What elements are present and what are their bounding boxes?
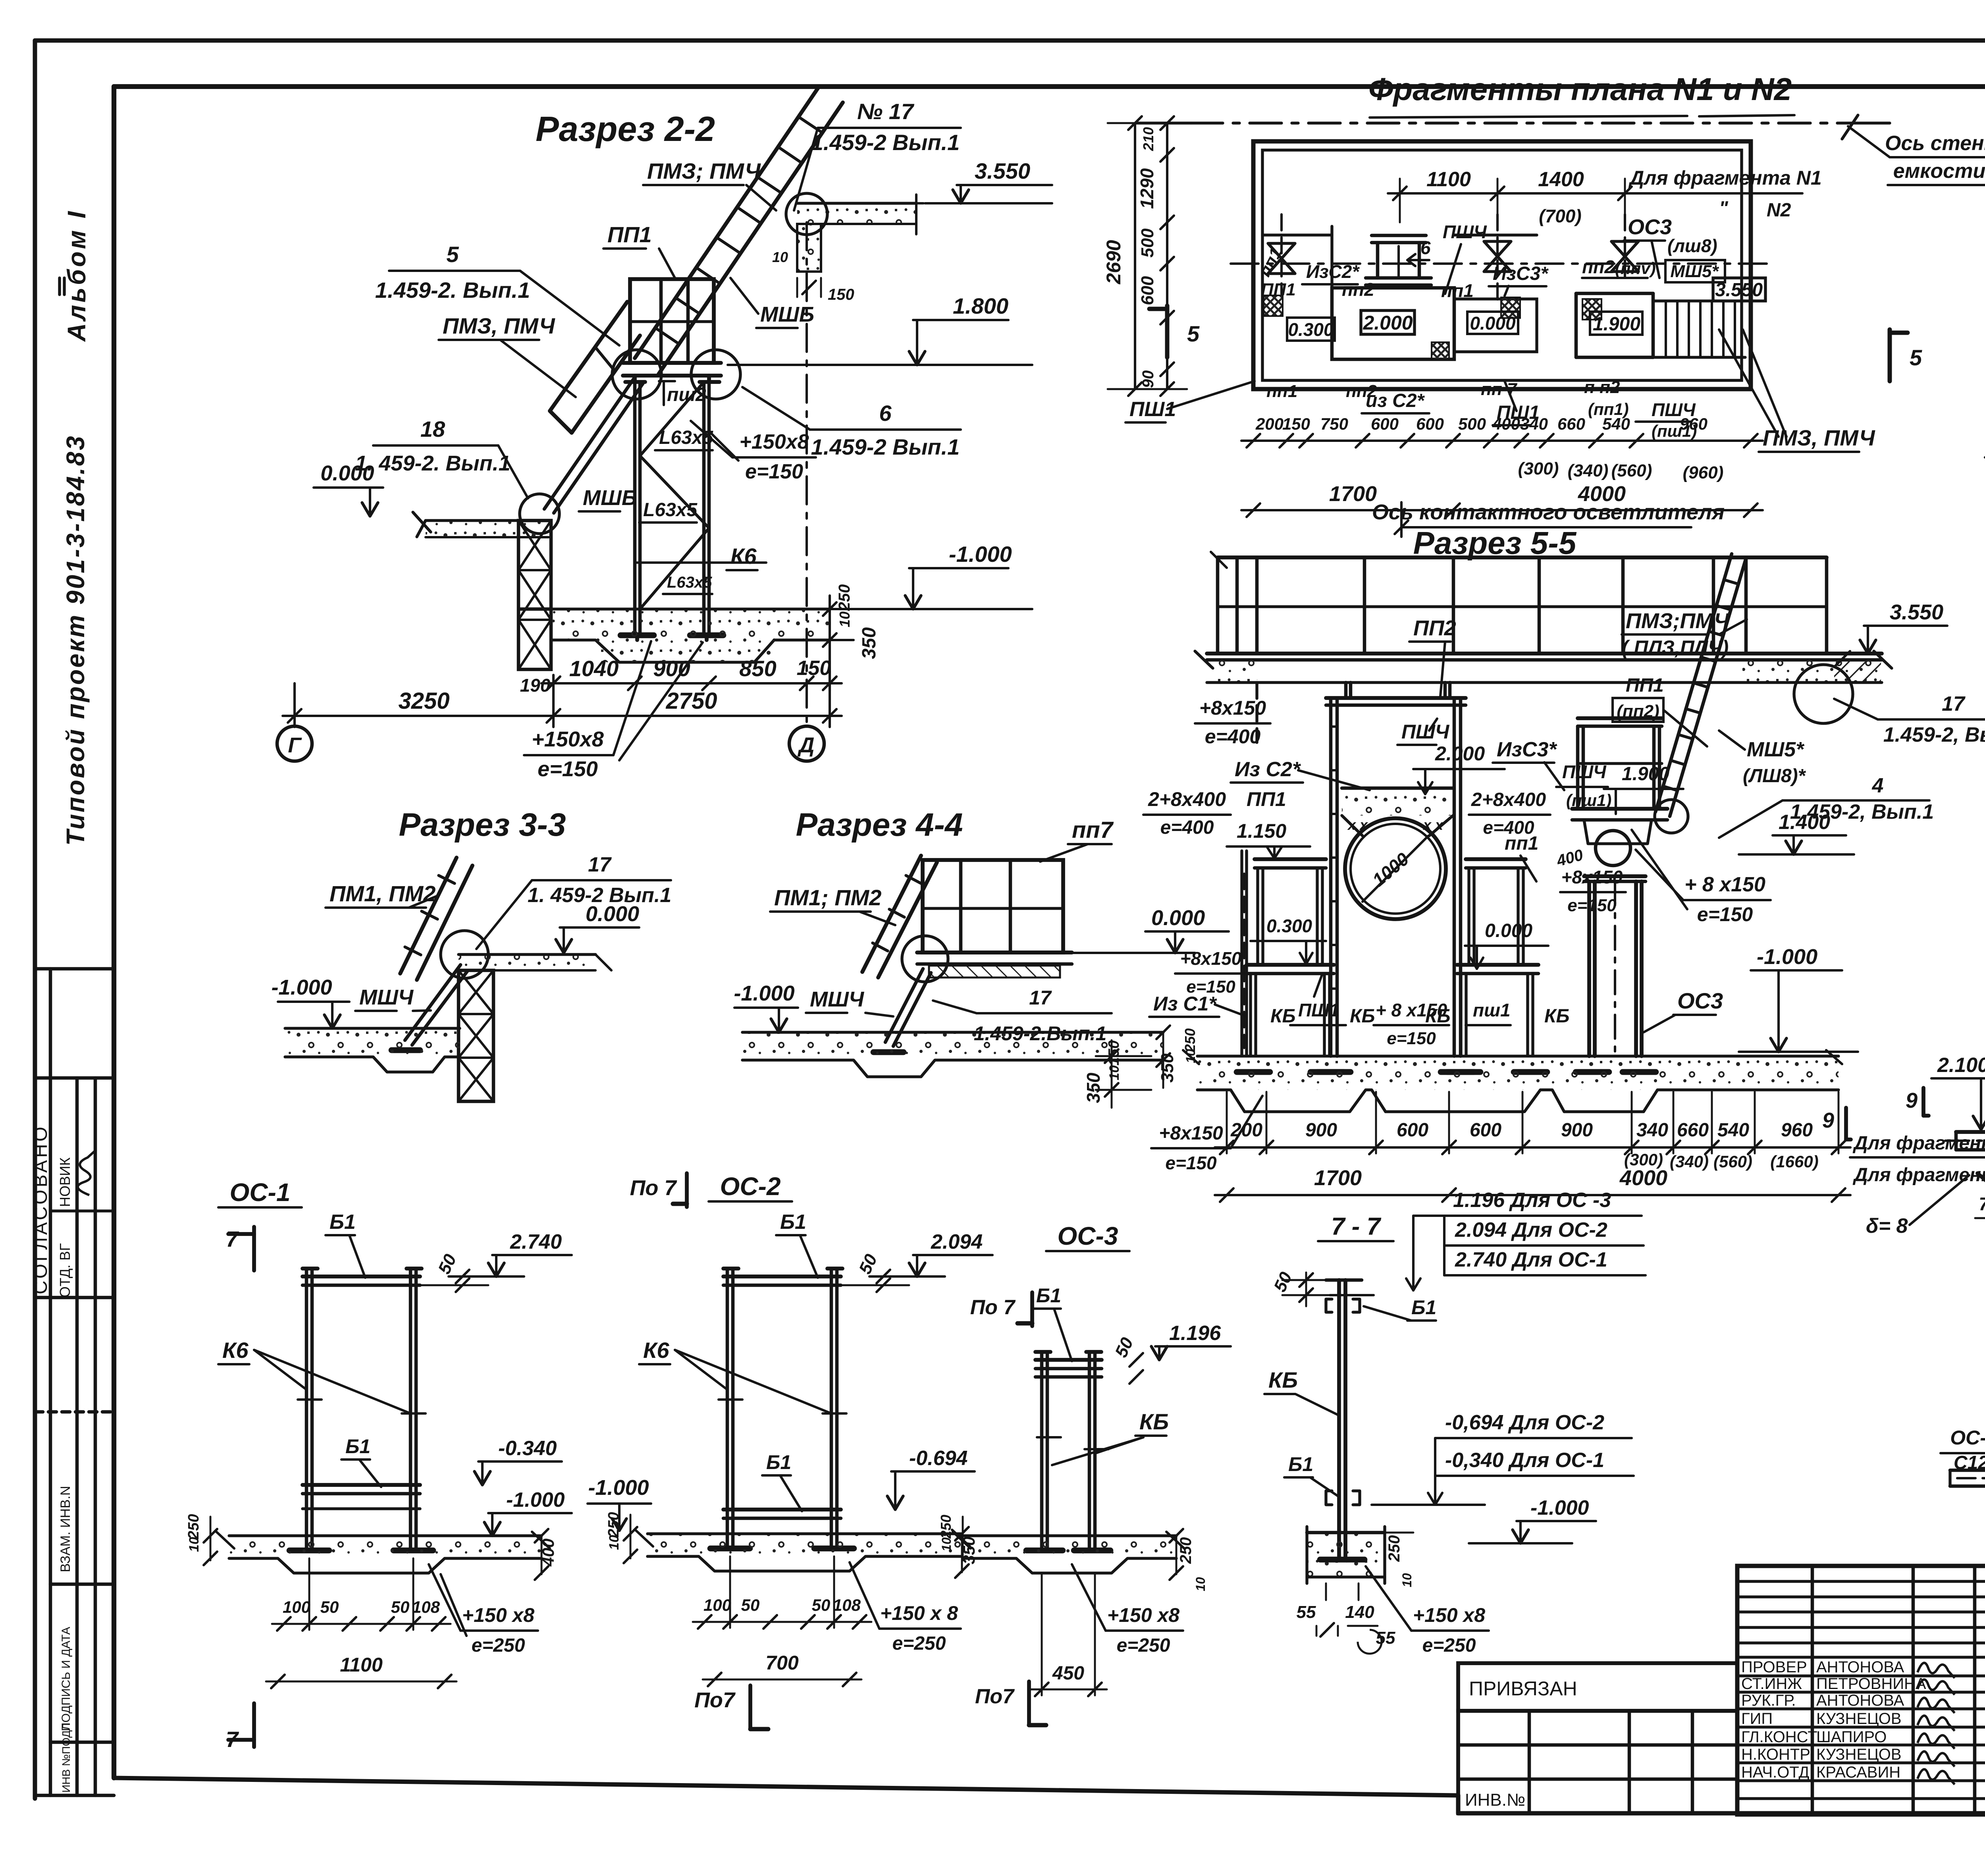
svg-text:пп 7: пп 7	[1481, 380, 1518, 399]
svg-text:2+8х400: 2+8х400	[1148, 788, 1226, 810]
svg-text:+150х8: +150х8	[740, 430, 809, 453]
3-3 X tower	[459, 970, 493, 1101]
plan bottom dim chain row1	[1241, 415, 1763, 447]
svg-text:250: 250	[605, 1512, 622, 1537]
4-4 stringer MShCh	[873, 969, 931, 1052]
svg-text:0.000: 0.000	[1470, 313, 1516, 334]
svg-text:108: 108	[412, 1598, 440, 1616]
2-2 elevation 0.000 left	[314, 461, 383, 516]
plan flanged fitting top	[1366, 235, 1431, 285]
7-7det bottom dims 55 140 55	[1297, 1602, 1395, 1654]
svg-text:-1.000: -1.000	[734, 981, 794, 1005]
svg-text:0.000: 0.000	[1485, 920, 1532, 941]
svg-text:ОС-2: ОС-2	[720, 1172, 781, 1201]
svg-text:70: 70	[1979, 1193, 1985, 1214]
svg-text:Разрез 4-4: Разрез 4-4	[796, 807, 963, 843]
OS-3 mark Po7 bottom	[975, 1681, 1046, 1725]
svg-text:2.094 Для ОС-2: 2.094 Для ОС-2	[1455, 1219, 1607, 1242]
4-4 hatched slab	[929, 966, 1060, 978]
svg-text:1.900: 1.900	[1593, 314, 1640, 335]
plan valve 2	[1484, 214, 1511, 302]
5-5 label 4 1.459-2	[1719, 774, 1934, 838]
svg-text:ПП1: ПП1	[607, 222, 652, 247]
OS-1 mark 7 bottom	[226, 1703, 254, 1752]
2-2 stair PM3 PM4 upper ladder	[635, 87, 843, 374]
svg-text:КБ: КБ	[1544, 1006, 1570, 1027]
svg-text:ПОДПИСЬ И ДАТА: ПОДПИСЬ И ДАТА	[60, 1627, 73, 1731]
OS-2 label K6	[639, 1338, 831, 1413]
svg-text:ИзС3*: ИзС3*	[1493, 263, 1549, 284]
8-8 label delta 8	[1866, 1175, 1969, 1238]
svg-text:(1660): (1660)	[1770, 1152, 1818, 1171]
plan left dims	[1102, 116, 1187, 396]
plan outer walls	[1253, 141, 1751, 389]
4-4 elevation -1.000	[734, 981, 798, 1032]
svg-text:L63x5: L63x5	[659, 427, 713, 448]
svg-text:250: 250	[1386, 1535, 1403, 1562]
OS-2 elevation -1.000	[588, 1476, 651, 1531]
svg-text:ОТД. ВГ: ОТД. ВГ	[57, 1243, 73, 1298]
svg-text:-1.000: -1.000	[1757, 945, 1817, 969]
svg-text:350: 350	[859, 627, 880, 659]
5-5 labels mid right	[1465, 830, 1771, 969]
plan valve 3	[1611, 214, 1638, 278]
5-5 label PP1 PP2 boxed	[1613, 675, 1707, 746]
svg-text:7: 7	[226, 1226, 239, 1251]
svg-text:2.100: 2.100	[1937, 1054, 1985, 1077]
3-3 stringer MShCh	[391, 965, 468, 1050]
5-5 labels center stack	[1397, 719, 1683, 838]
OS-1 label B1 mid	[341, 1435, 381, 1487]
plan label dlya fragmenta	[1528, 167, 1822, 221]
svg-text:е=250: е=250	[1117, 1635, 1170, 1656]
2-2 X-braced tower	[518, 521, 551, 669]
svg-text:-0,694 Для ОС-2: -0,694 Для ОС-2	[1445, 1411, 1604, 1434]
svg-text:0.000: 0.000	[586, 902, 639, 926]
svg-text:ОС-1: ОС-1	[230, 1178, 291, 1207]
svg-text:пп1: пп1	[1441, 280, 1474, 301]
plan elevation boxes	[1287, 278, 1765, 341]
plan label os steny yemkosti	[1842, 115, 1985, 185]
title Razrez 4-4	[796, 807, 963, 843]
svg-text:190: 190	[520, 675, 551, 696]
svg-text:17: 17	[1029, 987, 1052, 1009]
plan hatched squares	[1264, 295, 1601, 360]
svg-text:ГИП: ГИП	[1741, 1710, 1773, 1728]
svg-text:2.740 Для ОС-1: 2.740 Для ОС-1	[1455, 1248, 1607, 1271]
svg-text:По7: По7	[975, 1685, 1015, 1708]
2-2 dim chain 1040 900 850 150	[520, 656, 842, 696]
plan valve 1	[1268, 214, 1295, 294]
svg-text:200: 200	[1230, 1120, 1262, 1141]
2-2 upper slab with concrete pier	[772, 195, 923, 303]
3-3 stair incline PM1 PM2	[400, 858, 472, 980]
svg-text:Б1: Б1	[345, 1435, 370, 1458]
4-4 right dims 350 10 250	[1156, 1026, 1198, 1088]
OS-2 elevation 2.094	[869, 1230, 992, 1276]
svg-text:1700: 1700	[1314, 1166, 1362, 1190]
2-2 dim chain 3250 2750	[283, 671, 842, 727]
svg-text:ПРОВЕР: ПРОВЕР	[1741, 1658, 1807, 1676]
3-3 inspection circle	[441, 931, 488, 978]
svg-text:540: 540	[1602, 415, 1630, 433]
svg-text:17: 17	[588, 853, 612, 876]
OS-1 frame	[289, 1269, 433, 1550]
svg-text:ПМЗ, ПМЧ: ПМЗ, ПМЧ	[1763, 425, 1875, 450]
5-5 mark 9	[1822, 1108, 1851, 1139]
svg-text:Для фрагмента N1: Для фрагмента N1	[1628, 167, 1822, 189]
svg-text:е=150: е=150	[538, 757, 598, 781]
svg-text:Типовой проект 901-3-184.83: Типовой проект 901-3-184.83	[61, 434, 90, 846]
svg-text:210: 210	[1140, 127, 1156, 151]
svg-text:2.000: 2.000	[1435, 742, 1485, 765]
svg-text:КБ: КБ	[1425, 1006, 1451, 1027]
plan top dims 1100 1400	[1388, 168, 1637, 226]
OS-2 frame	[710, 1269, 854, 1548]
svg-text:3.550: 3.550	[975, 158, 1030, 183]
svg-text:РУК.ГР.: РУК.ГР.	[1741, 1692, 1796, 1709]
svg-text:Г: Г	[288, 733, 302, 757]
svg-text:Д: Д	[798, 733, 815, 757]
8-8 diagonal brace	[1977, 1159, 1985, 1314]
plan bottom labels	[1125, 330, 1875, 452]
svg-text:е=250: е=250	[472, 1635, 525, 1656]
title Razrez 3-3	[399, 807, 566, 843]
title block staff table	[1737, 1566, 1985, 1814]
svg-text:750: 750	[1320, 415, 1348, 433]
5-5 labels bottom left	[1149, 916, 1570, 1048]
title OS-1	[218, 1178, 302, 1207]
svg-text:6: 6	[1420, 237, 1431, 258]
svg-text:450: 450	[1052, 1663, 1084, 1684]
svg-text:1100: 1100	[340, 1654, 383, 1676]
svg-text:ИзС3*: ИзС3*	[1497, 738, 1557, 761]
svg-text:-0,340 Для ОС-1: -0,340 Для ОС-1	[1445, 1449, 1604, 1472]
3-3 label 17 1.459-2	[476, 853, 671, 949]
sidebar text: project number	[61, 434, 90, 846]
4-4 elevation 0.000	[1072, 906, 1229, 953]
svg-text:(ппv): (ппv)	[1615, 259, 1656, 278]
svg-text:-0.694: -0.694	[909, 1447, 968, 1470]
svg-text:Разрез 3-3: Разрез 3-3	[399, 807, 566, 843]
svg-text:е=400: е=400	[1205, 725, 1261, 748]
svg-text:ПМ1; ПМ2: ПМ1; ПМ2	[774, 885, 881, 910]
svg-text:500: 500	[1138, 228, 1157, 258]
5-5 right box and OS3 columns	[1572, 718, 1667, 1072]
svg-text:": "	[1719, 198, 1729, 219]
svg-text:700: 700	[765, 1652, 799, 1674]
2-2 axis circle D	[789, 726, 824, 761]
svg-text:55: 55	[1297, 1602, 1316, 1622]
5-5 elevation -1.000	[1739, 945, 1858, 1052]
svg-text:МШЧ: МШЧ	[359, 985, 414, 1009]
OS-2 mark Po7 bottom	[694, 1685, 768, 1729]
svg-text:(300): (300)	[1518, 459, 1559, 478]
2-2 label 18 1.459-2	[355, 416, 528, 498]
OS-3 label K6	[1052, 1409, 1169, 1465]
svg-text:Из С1*: Из С1*	[1153, 993, 1217, 1015]
svg-text:250: 250	[938, 1515, 954, 1539]
svg-text:500: 500	[1458, 415, 1486, 433]
svg-text:3.550: 3.550	[1890, 600, 1943, 624]
svg-text:(560): (560)	[1611, 461, 1652, 480]
5-5 label PP2	[1409, 616, 1456, 697]
svg-text:ИНВ.№: ИНВ.№	[1465, 1790, 1525, 1810]
svg-text:1.459-2, Вып.1: 1.459-2, Вып.1	[1883, 723, 1985, 746]
2-2 label +150x8 e=150 bottom	[524, 641, 703, 781]
svg-text:9: 9	[1906, 1089, 1918, 1112]
plan top axis line	[1135, 121, 1890, 124]
OS-2 elevation -0.694	[887, 1447, 975, 1510]
svg-text:2.000: 2.000	[1363, 312, 1413, 334]
svg-text:δ= 8: δ= 8	[1866, 1215, 1908, 1238]
svg-text:600: 600	[1397, 1120, 1428, 1141]
svg-text:КБ: КБ	[1139, 1409, 1169, 1434]
svg-text:По 7: По 7	[630, 1176, 678, 1200]
svg-text:1040: 1040	[569, 656, 619, 681]
OS-1 elevation -1.000	[437, 1488, 572, 1536]
svg-text:МШ5*: МШ5*	[1670, 262, 1719, 281]
svg-text:340: 340	[1636, 1120, 1668, 1141]
svg-text:10: 10	[1400, 1573, 1414, 1587]
5-5 label 400	[1554, 846, 1585, 870]
7-7det label K6	[1264, 1367, 1339, 1415]
sidebar label novik	[57, 1157, 73, 1207]
svg-text:-1.000: -1.000	[271, 976, 332, 999]
svg-text:10: 10	[836, 611, 853, 627]
2-2 label 6 1.459-2	[742, 387, 961, 459]
svg-text:пп1: пп1	[1505, 833, 1538, 854]
svg-text:КУЗНЕЦОВ: КУЗНЕЦОВ	[1816, 1710, 1902, 1728]
svg-text:150: 150	[1282, 415, 1310, 433]
svg-text:Б1: Б1	[766, 1451, 791, 1473]
svg-text:4000: 4000	[1619, 1166, 1667, 1190]
svg-text:1.459-2. Вып.1: 1.459-2. Вып.1	[375, 278, 530, 303]
5-5 ladder right	[1655, 554, 1853, 833]
svg-text:НОВИК: НОВИК	[57, 1157, 73, 1207]
svg-text:140: 140	[1345, 1602, 1374, 1622]
svg-text:L63x5: L63x5	[643, 499, 698, 521]
OS-1 bottom dims	[272, 1558, 451, 1631]
2-2 label +150x8 e=150 upper	[691, 421, 816, 483]
svg-text:Н.КОНТР: Н.КОНТР	[1741, 1746, 1810, 1763]
svg-text:1.400: 1.400	[1779, 811, 1830, 834]
svg-text:2.740: 2.740	[510, 1230, 562, 1253]
7-7det column	[1326, 1280, 1374, 1556]
2-2 columns under platform	[621, 382, 723, 640]
svg-text:Б1: Б1	[780, 1211, 806, 1234]
svg-text:2690: 2690	[1102, 240, 1125, 284]
svg-text:18: 18	[420, 416, 445, 442]
5-5 elevation 1.400	[1739, 811, 1854, 854]
5-5 left vert dims	[1083, 1040, 1151, 1108]
OS-2 dim 700	[703, 1652, 861, 1686]
svg-text:+8х150: +8х150	[1561, 867, 1623, 887]
svg-text:е=150: е=150	[1387, 1029, 1436, 1048]
svg-text:55: 55	[1376, 1628, 1395, 1648]
title Razrez 5-5	[1413, 525, 1577, 561]
2-2 brace labels L63x5	[639, 427, 713, 594]
svg-text:ПШЧ: ПШЧ	[1562, 762, 1607, 782]
svg-text:1100: 1100	[1426, 168, 1471, 191]
OS-1 mark 7 top	[226, 1226, 254, 1271]
svg-text:1.800: 1.800	[953, 293, 1008, 318]
7-7det label B1 lower	[1284, 1453, 1339, 1497]
OS-2 label +150x8 e=250	[850, 1562, 961, 1654]
svg-text:КБ: КБ	[1268, 1367, 1298, 1392]
svg-text:ПШ1: ПШ1	[1298, 1000, 1339, 1020]
plan axis osvetlitel	[1372, 500, 1725, 537]
2-2 centerline axis D	[806, 222, 808, 726]
2-2 label MShB lower	[579, 486, 637, 511]
title block privyazan table	[1458, 1663, 1737, 1813]
svg-text:200: 200	[1255, 415, 1284, 433]
8-8 elevation 2.100	[1931, 1054, 1985, 1130]
svg-text:1.196: 1.196	[1169, 1322, 1221, 1345]
svg-text:МШ5*: МШ5*	[1747, 738, 1805, 761]
svg-text:+150 х8: +150 х8	[1107, 1604, 1179, 1626]
7-7det footing block	[1307, 1527, 1385, 1600]
4-4 platform grid PP7	[917, 860, 1072, 964]
2-2 ladder stringer MShB	[544, 377, 643, 513]
svg-text:660: 660	[1557, 415, 1585, 433]
OS-2 label B1 mid	[762, 1451, 802, 1511]
OS-1 dim 50 top	[420, 1251, 488, 1292]
svg-text:-0.340: -0.340	[498, 1437, 557, 1460]
svg-text:N2: N2	[1767, 200, 1791, 221]
svg-text:ОС3: ОС3	[1628, 215, 1672, 239]
OS-3 mark Po7 top	[970, 1292, 1032, 1326]
svg-text:50: 50	[812, 1596, 831, 1614]
5-5 bottom dim chain	[1215, 1092, 1850, 1171]
svg-text:КБ: КБ	[1350, 1006, 1375, 1027]
plan stairs right	[1653, 301, 1745, 357]
4-4 ground band	[742, 1032, 1163, 1077]
plan small labels row	[1255, 215, 1725, 301]
svg-text:250: 250	[185, 1514, 202, 1539]
svg-text:850: 850	[739, 656, 776, 681]
svg-text:ПЕТРОВНИНА: ПЕТРОВНИНА	[1816, 1675, 1926, 1693]
svg-text:Б1: Б1	[1036, 1284, 1061, 1307]
plan horizontal axis	[1231, 262, 1775, 265]
svg-text:108: 108	[833, 1596, 861, 1614]
svg-text:е=150: е=150	[1165, 1153, 1217, 1173]
svg-text:пп2: пп2	[1342, 279, 1374, 300]
sidebar stamp boxes	[35, 969, 114, 1795]
svg-text:АНТОНОВА: АНТОНОВА	[1816, 1692, 1904, 1709]
7-7det dim 50 top	[1270, 1269, 1334, 1306]
OS-1 vert dims left	[185, 1514, 217, 1565]
OS-1 ground band	[216, 1532, 550, 1573]
svg-text:ШАПИРО: ШАПИРО	[1816, 1728, 1887, 1746]
svg-text:е=150: е=150	[1697, 903, 1753, 925]
5-5 walkway railing band	[1211, 552, 1827, 654]
svg-text:( ПЛЗ,ПЛЧ): ( ПЛЗ,ПЛЧ)	[1622, 636, 1729, 659]
svg-text:СТ.ИНЖ: СТ.ИНЖ	[1741, 1675, 1802, 1693]
OS-1 elevation -0.340	[474, 1437, 562, 1485]
2-2 platform box	[623, 279, 721, 382]
sidebar label podpis i data	[60, 1627, 73, 1731]
svg-text:из С2*: из С2*	[1366, 390, 1425, 411]
OS-2 vert dims left	[605, 1512, 637, 1563]
svg-text:540: 540	[1717, 1120, 1749, 1141]
svg-text:КУЗНЕЦОВ: КУЗНЕЦОВ	[1816, 1746, 1902, 1763]
2-2 elevation -1.000	[834, 542, 1032, 609]
svg-text:660: 660	[1677, 1120, 1709, 1141]
2-2 inspection circles	[520, 193, 827, 534]
svg-text:+ 8 х150: + 8 х150	[1684, 873, 1765, 896]
svg-text:100: 100	[703, 1596, 731, 1614]
4-4 label MShCh	[806, 987, 893, 1016]
5-5 central hangers	[1257, 683, 1450, 742]
svg-text:250: 250	[1177, 1537, 1195, 1564]
svg-text:600: 600	[1416, 415, 1444, 433]
svg-text:ОС-5: ОС-5	[1950, 1427, 1985, 1449]
svg-text:е=250: е=250	[892, 1633, 946, 1654]
svg-text:(лш8): (лш8)	[1667, 235, 1717, 256]
2-2 label MShB upper	[730, 278, 814, 328]
svg-text:Из С2*: Из С2*	[1235, 758, 1301, 781]
title Razrez 2-2	[536, 109, 715, 148]
svg-text:L63х5: L63х5	[667, 574, 712, 591]
svg-text:5: 5	[1187, 321, 1200, 346]
svg-text:50: 50	[741, 1596, 760, 1614]
OS-3 dim 50 and 1.196	[1108, 1322, 1231, 1384]
2-2 elevation 1.800	[728, 293, 1032, 365]
2-2 right vertical dims 350 10 250	[818, 584, 893, 691]
svg-text:2750: 2750	[665, 688, 717, 714]
2-2 label PP1	[603, 222, 675, 278]
svg-text:Б1: Б1	[1288, 1453, 1313, 1475]
svg-text:(960): (960)	[1683, 463, 1724, 482]
svg-text:600: 600	[1138, 276, 1157, 305]
svg-text:СОГЛАСОВАНО: СОГЛАСОВАНО	[30, 1124, 51, 1294]
8-8 small dims	[1975, 1192, 1985, 1284]
sidebar signature	[78, 1150, 96, 1195]
svg-text:9: 9	[1822, 1109, 1834, 1132]
2-2 label K6	[635, 544, 766, 570]
svg-text:ВЗАМ. ИНВ.N: ВЗАМ. ИНВ.N	[58, 1486, 73, 1572]
2-2 floor slab 0.000	[413, 512, 549, 537]
4-4 label PP7	[1040, 817, 1114, 862]
svg-text:600: 600	[1371, 415, 1399, 433]
5-5 elevation 3.550	[1834, 600, 1947, 667]
svg-text:960: 960	[1680, 415, 1707, 433]
svg-text:е=250: е=250	[1422, 1635, 1476, 1656]
2-2 braces L63x5	[640, 382, 709, 609]
svg-text:+150 х8: +150 х8	[1413, 1604, 1485, 1626]
7-7det elevation -1.000	[1469, 1496, 1596, 1543]
5-5 table 1.196 2.094 2.740	[1406, 1189, 1646, 1290]
svg-text:Фрагменты плана N1 и N2: Фрагменты плана N1 и N2	[1368, 71, 1792, 107]
svg-text:350: 350	[1083, 1072, 1104, 1103]
svg-text:900: 900	[1305, 1120, 1337, 1141]
7-7det elevations dlya OS	[1372, 1411, 1634, 1505]
svg-text:По7: По7	[694, 1688, 736, 1712]
3-3 floor slab	[459, 954, 611, 970]
2-2 label 17 1.459-2	[794, 99, 961, 210]
7-7det lower angles	[1326, 1491, 1360, 1505]
OS-2 dim 50 top	[841, 1251, 909, 1292]
svg-text:ПШЧ: ПШЧ	[1443, 222, 1487, 242]
svg-text:400: 400	[1492, 415, 1520, 433]
OS-3 vert dims	[938, 1515, 1208, 1591]
svg-text:е=150: е=150	[1567, 896, 1617, 915]
plan inner partitions	[1262, 226, 1653, 359]
svg-text:пп2: пп2	[1582, 256, 1615, 277]
plan section mark 5 right	[1890, 330, 1922, 381]
4-4 stair incline PM1 PM2	[862, 856, 937, 978]
